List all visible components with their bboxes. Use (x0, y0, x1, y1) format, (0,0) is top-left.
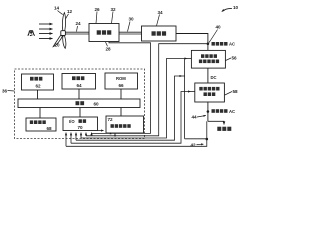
storage device box 存储装置 68 (26, 118, 56, 131)
sensor wire L6 grid sense (66, 121, 207, 146)
DC link wire (207, 68, 209, 83)
svg-text:14: 14 (54, 6, 60, 11)
wire branch vertical to junction (184, 59, 186, 139)
processor-bus wire (37, 90, 39, 99)
svg-text:60: 60 (94, 101, 100, 106)
svg-text:66: 66 (119, 83, 125, 88)
svg-text:56: 56 (232, 56, 238, 61)
low-speed shaft (65, 32, 89, 34)
svg-text:I/O: I/O (69, 119, 75, 124)
svg-text:28: 28 (106, 47, 112, 52)
control system dashed box 36 (15, 69, 145, 139)
net label 电源网 (217, 127, 231, 131)
svg-text:62: 62 (36, 84, 42, 89)
grid output wire (207, 102, 209, 121)
sensor wire L5 grid-side converter control (71, 92, 191, 144)
memory-bus wire (78, 89, 80, 99)
svg-text:36: 36 (2, 89, 8, 94)
rotor lower-right blade (63, 36, 66, 49)
svg-text:64: 64 (77, 83, 83, 88)
node 44 junction dot (207, 110, 210, 113)
svg-text:42: 42 (191, 143, 197, 148)
svg-text:72: 72 (108, 117, 114, 122)
wind arrows (39, 24, 53, 39)
I/O-bus wire (79, 108, 81, 118)
storage-bus wire (39, 108, 41, 119)
sensor wire L4 with mid arrow (76, 76, 182, 140)
memory box 存储器 64 (62, 74, 96, 90)
rotor lower-left blade (53, 35, 62, 47)
sensor-bus wire (120, 108, 122, 117)
sensor unit box 感测器单元 72 (106, 116, 144, 133)
svg-text:34: 34 (158, 10, 164, 15)
svg-text:20: 20 (55, 43, 61, 48)
wind label 风 (28, 31, 35, 36)
sensor wire L1 gearbox (92, 42, 151, 134)
rotor top blade (62, 13, 65, 31)
sensor box bottom stub arrows (110, 132, 117, 136)
net label 可变频率AC (212, 42, 228, 46)
net label 恒定频率AC (212, 109, 228, 113)
gearbox 齿轮箱 box (89, 24, 119, 42)
svg-text:ROM: ROM (116, 76, 126, 81)
svg-text:40: 40 (216, 25, 222, 30)
node 40 junction dot (207, 42, 210, 45)
ROM box 66 (105, 73, 138, 89)
svg-text:AC: AC (229, 42, 235, 47)
svg-text:DC: DC (211, 75, 217, 80)
bus bar 总线 60 (18, 99, 140, 108)
svg-text:12: 12 (67, 9, 73, 14)
junction dot on L6 riser (206, 138, 209, 141)
svg-text:26: 26 (95, 7, 101, 12)
high-speed shaft (119, 32, 142, 34)
I/O component box I/O部件 70 (63, 117, 98, 131)
svg-text:58: 58 (233, 89, 239, 94)
svg-text:AC: AC (229, 109, 235, 114)
ROM-bus wire (120, 89, 122, 99)
generator-side power converter box 发电机侧功率转换器 (191, 50, 225, 68)
svg-text:68: 68 (47, 126, 53, 131)
svg-text:24: 24 (76, 21, 82, 26)
wire to utility grid (208, 121, 224, 124)
sensor wire L2 node 40 (86, 44, 207, 136)
generator 发电机 box (142, 26, 177, 41)
svg-text:10: 10 (233, 5, 239, 10)
I/O to sensor arrow (98, 130, 104, 132)
I/O input stub arrows (66, 133, 92, 147)
processor box 处理器 62 (22, 74, 54, 90)
rotor hub (61, 31, 66, 36)
svg-text:44: 44 (192, 115, 198, 120)
svg-text:30: 30 (129, 17, 135, 22)
svg-text:70: 70 (78, 125, 84, 130)
generator output wire (176, 34, 208, 51)
sensor wire L3 generator-side converter control (81, 59, 187, 139)
svg-text:32: 32 (111, 7, 117, 12)
grid-side power converter box 电网侧功率转换器 (195, 83, 225, 102)
